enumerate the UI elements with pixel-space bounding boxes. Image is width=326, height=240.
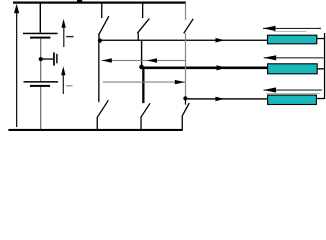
voltage arrow V1 <box>61 19 65 47</box>
switch S3 upper leg B <box>137 3 149 33</box>
terminal bar short <box>56 54 57 64</box>
switch S6 lower leg B <box>140 103 150 129</box>
current path arrow lower (into leg C) <box>103 80 185 84</box>
wire leg B pivot <box>138 33 139 41</box>
load R2 <box>268 64 325 74</box>
switch S2 lower leg C <box>182 98 190 129</box>
wire DC bus lower segment <box>40 87 41 130</box>
current arrow ic (above R3) <box>264 87 323 92</box>
wire DC bus mid segment <box>40 39 41 82</box>
node C <box>183 96 187 100</box>
node A <box>98 39 102 43</box>
capacitor C1 <box>23 33 58 39</box>
switch S5 upper leg C <box>184 3 194 98</box>
wire leg B mid <box>141 41 142 67</box>
switch S4 lower leg A <box>97 100 109 129</box>
wire faint line above R1 <box>274 31 307 32</box>
switch S1 upper leg A <box>99 3 108 34</box>
wire leg B lower stub <box>142 67 144 103</box>
wire faint line above R3 <box>266 93 320 94</box>
node M midpoint <box>39 57 43 61</box>
blip artifact on rail <box>77 0 82 2</box>
wire neutral return <box>324 33 325 99</box>
wire top DC rail <box>13 2 186 4</box>
current path arrow upper (phase A-C) <box>102 58 186 63</box>
wire line C <box>185 98 267 99</box>
load R1 <box>268 35 325 44</box>
wire midpoint stub <box>41 58 53 59</box>
current arrow line B <box>217 65 228 70</box>
wire bottom DC rail <box>8 129 182 131</box>
load R3 <box>268 95 325 104</box>
current arrow ib (above R2) <box>264 55 324 60</box>
voltage arrow V2 <box>61 66 65 94</box>
minus sign V2 <box>66 85 72 86</box>
wire leg A pivot <box>98 33 99 41</box>
minus sign V1 <box>66 36 73 37</box>
voltage arrow Vdc <box>14 4 19 127</box>
wire line A <box>100 40 268 41</box>
terminal bar long <box>53 52 55 65</box>
current arrow line C <box>215 97 224 102</box>
wire line B thick <box>142 67 268 70</box>
wire DC bus upper segment <box>40 3 41 33</box>
current arrow ia (above R1) <box>263 26 321 31</box>
wire leg A lower <box>98 41 99 103</box>
current arrow line A <box>216 38 225 43</box>
capacitor C2 <box>24 81 59 87</box>
node B <box>139 65 144 70</box>
